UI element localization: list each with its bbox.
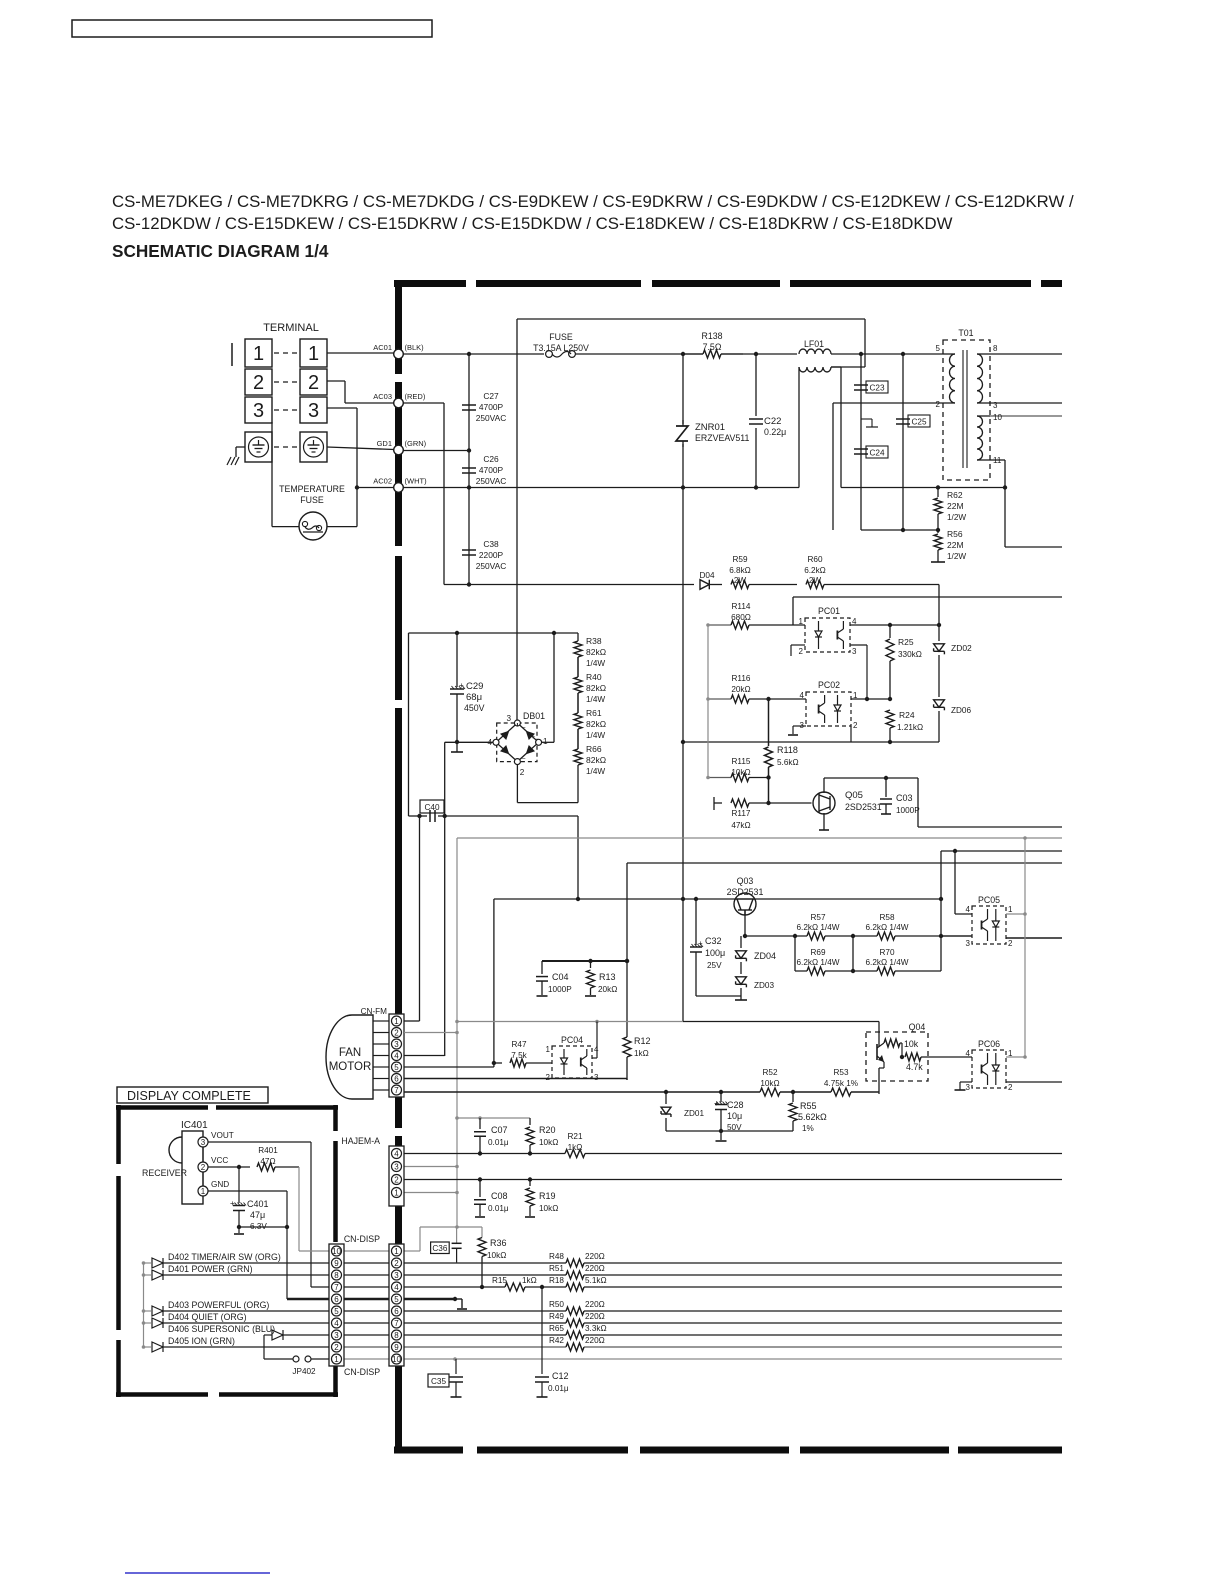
svg-text:D403 POWERFUL (ORG): D403 POWERFUL (ORG) (168, 1300, 269, 1310)
svg-text:220Ω: 220Ω (585, 1252, 605, 1261)
svg-text:R69: R69 (810, 948, 825, 957)
svg-text:1kΩ: 1kΩ (634, 1049, 649, 1058)
svg-text:3: 3 (253, 400, 264, 422)
svg-text:4: 4 (487, 738, 492, 747)
svg-text:R51: R51 (549, 1264, 564, 1273)
svg-text:4: 4 (394, 1149, 399, 1158)
svg-text:10kΩ: 10kΩ (539, 1204, 558, 1213)
svg-text:1000P: 1000P (896, 806, 920, 815)
svg-text:82kΩ: 82kΩ (586, 755, 606, 765)
svg-text:6.2kΩ 1/4W: 6.2kΩ 1/4W (797, 923, 840, 932)
svg-text:3: 3 (594, 1073, 599, 1082)
svg-text:GD1: GD1 (377, 439, 392, 448)
svg-text:1: 1 (1008, 1049, 1013, 1058)
svg-text:6.2kΩ 1/4W: 6.2kΩ 1/4W (797, 958, 840, 967)
svg-text:Q04: Q04 (909, 1022, 926, 1032)
svg-text:PC04: PC04 (561, 1035, 583, 1045)
svg-text:82kΩ: 82kΩ (586, 647, 606, 657)
svg-text:0.01μ: 0.01μ (488, 1138, 509, 1147)
svg-text:4.7k: 4.7k (906, 1062, 923, 1072)
svg-text:R18: R18 (549, 1276, 564, 1285)
svg-text:R70: R70 (879, 948, 894, 957)
svg-text:CS-ME7DKEG / CS-ME7DKRG / CS-M: CS-ME7DKEG / CS-ME7DKRG / CS-ME7DKDG / C… (112, 192, 1074, 211)
svg-text:C38: C38 (483, 539, 499, 549)
svg-text:10μ: 10μ (727, 1111, 742, 1121)
svg-text:2: 2 (201, 1163, 206, 1172)
svg-text:4: 4 (394, 1283, 399, 1292)
svg-text:10kΩ: 10kΩ (539, 1138, 558, 1147)
svg-text:6.3V: 6.3V (250, 1222, 267, 1231)
svg-text:C26: C26 (483, 454, 499, 464)
svg-text:1/4W: 1/4W (586, 695, 605, 704)
svg-text:R52: R52 (762, 1068, 777, 1077)
svg-text:7: 7 (394, 1319, 399, 1328)
svg-text:1: 1 (394, 1017, 399, 1026)
svg-text:5: 5 (394, 1295, 399, 1304)
svg-text:1: 1 (253, 343, 264, 365)
svg-text:R138: R138 (701, 331, 722, 341)
svg-text:220Ω: 220Ω (585, 1300, 605, 1309)
svg-text:3: 3 (334, 1331, 339, 1340)
svg-text:D404 QUIET (ORG): D404 QUIET (ORG) (168, 1312, 247, 1322)
svg-text:TEMPERATURE: TEMPERATURE (279, 484, 345, 494)
svg-text:CS-12DKDW / CS-E15DKEW / CS-E1: CS-12DKDW / CS-E15DKEW / CS-E15DKRW / CS… (112, 214, 953, 233)
svg-text:6.2kΩ 1/4W: 6.2kΩ 1/4W (866, 958, 909, 967)
svg-text:Q05: Q05 (845, 790, 863, 801)
svg-text:R47: R47 (511, 1040, 526, 1049)
svg-text:2200P: 2200P (479, 550, 504, 560)
svg-text:C04: C04 (552, 972, 569, 982)
svg-text:11: 11 (993, 456, 1002, 465)
svg-text:R12: R12 (634, 1036, 651, 1046)
svg-text:R118: R118 (777, 745, 798, 755)
svg-text:1/2W: 1/2W (947, 513, 966, 522)
svg-text:5.62kΩ: 5.62kΩ (798, 1112, 827, 1122)
svg-text:8: 8 (394, 1331, 399, 1340)
svg-text:R57: R57 (810, 913, 825, 922)
svg-text:D401 POWER (GRN): D401 POWER (GRN) (168, 1264, 253, 1274)
svg-text:R42: R42 (549, 1336, 564, 1345)
svg-text:+: + (714, 1099, 719, 1108)
svg-text:3: 3 (394, 1271, 399, 1280)
svg-text:4700P: 4700P (479, 465, 504, 475)
svg-text:LF01: LF01 (804, 339, 824, 349)
svg-text:1/4W: 1/4W (586, 767, 605, 776)
svg-text:2W: 2W (809, 576, 822, 585)
svg-text:DB01: DB01 (523, 711, 545, 721)
svg-text:RECEIVER: RECEIVER (142, 1168, 187, 1178)
svg-text:6.2kΩ 1/4W: 6.2kΩ 1/4W (866, 923, 909, 932)
svg-text:R116: R116 (732, 674, 751, 683)
svg-text:ZD06: ZD06 (951, 706, 971, 715)
svg-text:2: 2 (853, 721, 858, 730)
svg-text:R401: R401 (258, 1146, 278, 1155)
svg-text:R61: R61 (586, 708, 602, 718)
svg-text:10: 10 (392, 1355, 401, 1364)
svg-text:ZD04: ZD04 (754, 951, 776, 961)
svg-text:R48: R48 (549, 1252, 564, 1261)
svg-text:1: 1 (394, 1188, 399, 1197)
svg-text:R58: R58 (879, 913, 894, 922)
svg-text:R24: R24 (899, 710, 915, 720)
svg-text:1kΩ: 1kΩ (568, 1143, 583, 1152)
svg-text:R56: R56 (947, 529, 963, 539)
svg-text:−: − (501, 734, 505, 741)
svg-text:C25: C25 (911, 418, 926, 427)
svg-text:220Ω: 220Ω (585, 1264, 605, 1273)
svg-text:R114: R114 (732, 602, 751, 611)
svg-text:47μ: 47μ (250, 1210, 265, 1220)
svg-text:C36: C36 (432, 1244, 447, 1253)
svg-text:1: 1 (799, 617, 804, 626)
svg-text:3: 3 (394, 1162, 399, 1171)
svg-text:330kΩ: 330kΩ (898, 650, 922, 659)
svg-text:2SD2531: 2SD2531 (845, 802, 882, 812)
svg-text:3: 3 (852, 647, 857, 656)
svg-text:MOTOR: MOTOR (329, 1061, 372, 1073)
svg-text:20kΩ: 20kΩ (731, 685, 750, 694)
svg-text:1: 1 (543, 737, 548, 746)
svg-text:C29: C29 (466, 681, 483, 692)
svg-text:C24: C24 (869, 449, 884, 458)
svg-text:2: 2 (520, 768, 525, 777)
svg-text:680Ω: 680Ω (731, 613, 751, 622)
svg-text:9: 9 (394, 1343, 399, 1352)
svg-text:+: + (459, 681, 464, 690)
svg-text:450V: 450V (464, 703, 485, 713)
svg-text:5: 5 (394, 1063, 399, 1072)
svg-text:8: 8 (334, 1271, 339, 1280)
svg-text:4: 4 (594, 1045, 599, 1054)
svg-text:2: 2 (546, 1073, 551, 1082)
svg-text:1/4W: 1/4W (586, 731, 605, 740)
svg-text:3: 3 (800, 721, 805, 730)
svg-text:1: 1 (201, 1187, 206, 1196)
svg-text:250VAC: 250VAC (476, 561, 507, 571)
svg-text:4: 4 (966, 1049, 971, 1058)
svg-text:IC401: IC401 (181, 1120, 208, 1131)
svg-text:2W: 2W (734, 576, 747, 585)
svg-text:ZD01: ZD01 (684, 1109, 704, 1118)
svg-text:2: 2 (936, 400, 941, 409)
svg-text:FUSE: FUSE (300, 495, 324, 505)
svg-text:~: ~ (522, 725, 526, 732)
svg-text:C08: C08 (491, 1191, 508, 1201)
svg-text:1000P: 1000P (548, 985, 572, 994)
svg-text:ERZVEAV511: ERZVEAV511 (695, 433, 750, 443)
svg-text:C32: C32 (705, 936, 722, 946)
svg-text:4: 4 (800, 691, 805, 700)
svg-text:JP402: JP402 (292, 1367, 316, 1376)
svg-text:R38: R38 (586, 636, 602, 646)
svg-text:3: 3 (966, 1083, 971, 1092)
svg-text:1.21kΩ: 1.21kΩ (897, 723, 923, 732)
svg-text:R117: R117 (732, 809, 751, 818)
svg-text:C07: C07 (491, 1125, 508, 1135)
svg-text:5.1kΩ: 5.1kΩ (585, 1276, 607, 1285)
svg-text:D04: D04 (699, 571, 714, 580)
svg-text:6: 6 (394, 1307, 399, 1316)
svg-text:22M: 22M (947, 501, 964, 511)
svg-text:R21: R21 (567, 1132, 582, 1141)
svg-text:82kΩ: 82kΩ (586, 683, 606, 693)
svg-text:25V: 25V (707, 961, 722, 970)
svg-text:R59: R59 (732, 555, 747, 564)
svg-text:GND: GND (211, 1180, 229, 1189)
svg-text:0.01μ: 0.01μ (488, 1204, 509, 1213)
svg-text:PC05: PC05 (978, 895, 1000, 905)
svg-text:R115: R115 (732, 757, 751, 766)
svg-text:C40: C40 (424, 803, 439, 812)
svg-text:Q03: Q03 (737, 876, 754, 886)
svg-text:(WHT): (WHT) (405, 477, 428, 486)
svg-text:2: 2 (394, 1028, 399, 1037)
svg-text:10kΩ: 10kΩ (487, 1251, 506, 1260)
svg-text:1/2W: 1/2W (947, 552, 966, 561)
svg-text:5: 5 (936, 344, 941, 353)
svg-text:2: 2 (799, 647, 804, 656)
svg-text:1: 1 (853, 691, 858, 700)
svg-text:10kΩ: 10kΩ (760, 1079, 779, 1088)
svg-text:6.2kΩ: 6.2kΩ (804, 566, 826, 575)
svg-text:2: 2 (394, 1259, 399, 1268)
svg-text:D406 SUPERSONIC (BLU): D406 SUPERSONIC (BLU) (168, 1324, 275, 1334)
svg-text:HAJEM-A: HAJEM-A (341, 1136, 380, 1146)
svg-text:C03: C03 (896, 793, 913, 803)
svg-text:1: 1 (334, 1355, 339, 1364)
svg-text:50V: 50V (727, 1123, 742, 1132)
svg-text:R36: R36 (490, 1238, 507, 1248)
svg-text:VOUT: VOUT (211, 1131, 234, 1140)
svg-text:2: 2 (308, 372, 319, 394)
svg-text:10k: 10k (904, 1039, 919, 1049)
svg-text:C35: C35 (431, 1377, 446, 1386)
svg-text:R62: R62 (947, 490, 963, 500)
svg-text:R25: R25 (898, 637, 914, 647)
svg-text:47kΩ: 47kΩ (731, 821, 750, 830)
svg-text:+: + (531, 734, 535, 741)
svg-text:TERMINAL: TERMINAL (263, 322, 319, 334)
svg-text:R19: R19 (539, 1191, 556, 1201)
svg-text:47Ω: 47Ω (260, 1157, 275, 1166)
svg-text:C401: C401 (247, 1199, 269, 1209)
svg-text:CN-DISP: CN-DISP (344, 1367, 380, 1377)
svg-text:T3.15A L250V: T3.15A L250V (533, 343, 589, 353)
svg-text:1: 1 (394, 1247, 399, 1256)
svg-text:100μ: 100μ (705, 948, 725, 958)
svg-text:FUSE: FUSE (549, 332, 573, 342)
svg-text:1%: 1% (802, 1124, 814, 1133)
svg-text:3: 3 (966, 939, 971, 948)
svg-text:R55: R55 (800, 1101, 817, 1111)
svg-text:10kΩ: 10kΩ (731, 768, 750, 777)
svg-text:AC01: AC01 (373, 343, 392, 352)
svg-text:7: 7 (394, 1086, 399, 1095)
svg-text:22M: 22M (947, 540, 964, 550)
svg-text:CN-FM: CN-FM (361, 1007, 388, 1016)
svg-text:4.75k 1%: 4.75k 1% (824, 1079, 858, 1088)
svg-text:T01: T01 (958, 328, 973, 338)
svg-text:PC06: PC06 (978, 1039, 1000, 1049)
svg-text:2: 2 (253, 372, 264, 394)
svg-text:3: 3 (993, 401, 998, 410)
svg-text:3: 3 (201, 1138, 206, 1147)
svg-text:C28: C28 (727, 1100, 744, 1110)
svg-text:250VAC: 250VAC (476, 413, 507, 423)
svg-text:5.6kΩ: 5.6kΩ (777, 758, 799, 767)
svg-text:(RED): (RED) (405, 392, 426, 401)
svg-text:7.5k: 7.5k (511, 1051, 527, 1060)
svg-text:ZD02: ZD02 (951, 643, 972, 653)
svg-text:3: 3 (308, 400, 319, 422)
svg-text:1kΩ: 1kΩ (522, 1276, 537, 1285)
svg-text:3: 3 (394, 1040, 399, 1049)
svg-text:20kΩ: 20kΩ (598, 985, 617, 994)
svg-text:4: 4 (334, 1319, 339, 1328)
svg-text:0.01μ: 0.01μ (548, 1384, 569, 1393)
svg-text:1: 1 (546, 1045, 551, 1054)
svg-text:C27: C27 (483, 391, 499, 401)
svg-text:R65: R65 (549, 1324, 564, 1333)
svg-text:3: 3 (506, 714, 511, 723)
svg-text:C12: C12 (552, 1371, 569, 1381)
svg-text:PC02: PC02 (818, 680, 840, 690)
svg-text:0.22μ: 0.22μ (764, 427, 786, 437)
svg-text:VCC: VCC (211, 1156, 228, 1165)
svg-text:ZD03: ZD03 (754, 981, 774, 990)
svg-text:AC03: AC03 (373, 392, 392, 401)
svg-text:1: 1 (1008, 905, 1013, 914)
svg-text:2: 2 (1008, 939, 1013, 948)
svg-text:1/4W: 1/4W (586, 659, 605, 668)
svg-text:C23: C23 (869, 384, 884, 393)
svg-text:FAN: FAN (339, 1047, 361, 1059)
svg-text:10: 10 (332, 1247, 341, 1256)
svg-text:7: 7 (334, 1283, 339, 1292)
svg-text:+: + (698, 939, 703, 948)
svg-text:8: 8 (993, 344, 998, 353)
svg-text:10: 10 (993, 413, 1002, 422)
svg-text:C22: C22 (764, 416, 781, 427)
svg-text:R50: R50 (549, 1300, 564, 1309)
svg-text:2SD2531: 2SD2531 (727, 887, 764, 897)
svg-text:R13: R13 (599, 972, 616, 982)
svg-text:R53: R53 (833, 1068, 848, 1077)
svg-text:220Ω: 220Ω (585, 1312, 605, 1321)
svg-text:+: + (230, 1199, 235, 1208)
svg-text:CN-DISP: CN-DISP (344, 1234, 380, 1244)
svg-text:(GRN): (GRN) (405, 439, 427, 448)
svg-text:6.8kΩ: 6.8kΩ (729, 566, 751, 575)
svg-text:9: 9 (334, 1259, 339, 1268)
svg-text:R20: R20 (539, 1125, 556, 1135)
svg-text:R15: R15 (492, 1276, 507, 1285)
svg-text:3.3kΩ: 3.3kΩ (585, 1324, 607, 1333)
svg-text:4: 4 (966, 905, 971, 914)
svg-text:SCHEMATIC DIAGRAM 1/4: SCHEMATIC DIAGRAM 1/4 (112, 241, 329, 261)
svg-text:R66: R66 (586, 744, 602, 754)
svg-text:6: 6 (334, 1295, 339, 1304)
svg-text:1: 1 (308, 343, 319, 365)
svg-text:4700P: 4700P (479, 402, 504, 412)
svg-text:6: 6 (394, 1074, 399, 1083)
svg-text:2: 2 (394, 1175, 399, 1184)
svg-text:~: ~ (522, 756, 526, 763)
svg-text:R40: R40 (586, 672, 602, 682)
svg-text:AC02: AC02 (373, 477, 392, 486)
svg-text:ZNR01: ZNR01 (695, 422, 725, 433)
svg-text:4: 4 (394, 1051, 399, 1060)
svg-text:68μ: 68μ (466, 692, 482, 703)
svg-text:7.5Ω: 7.5Ω (703, 342, 722, 352)
svg-text:DISPLAY COMPLETE: DISPLAY COMPLETE (127, 1089, 251, 1103)
svg-text:2: 2 (1008, 1083, 1013, 1092)
svg-text:220Ω: 220Ω (585, 1336, 605, 1345)
svg-text:PC01: PC01 (818, 606, 840, 616)
svg-text:2: 2 (334, 1343, 339, 1352)
svg-text:5: 5 (334, 1307, 339, 1316)
svg-text:R60: R60 (807, 555, 822, 564)
svg-text:(BLK): (BLK) (405, 343, 425, 352)
svg-text:D402 TIMER/AIR SW (ORG): D402 TIMER/AIR SW (ORG) (168, 1252, 281, 1262)
svg-text:4: 4 (852, 617, 857, 626)
svg-text:250VAC: 250VAC (476, 476, 507, 486)
svg-text:82kΩ: 82kΩ (586, 719, 606, 729)
svg-text:D405 ION (GRN): D405 ION (GRN) (168, 1336, 235, 1346)
svg-text:R49: R49 (549, 1312, 564, 1321)
